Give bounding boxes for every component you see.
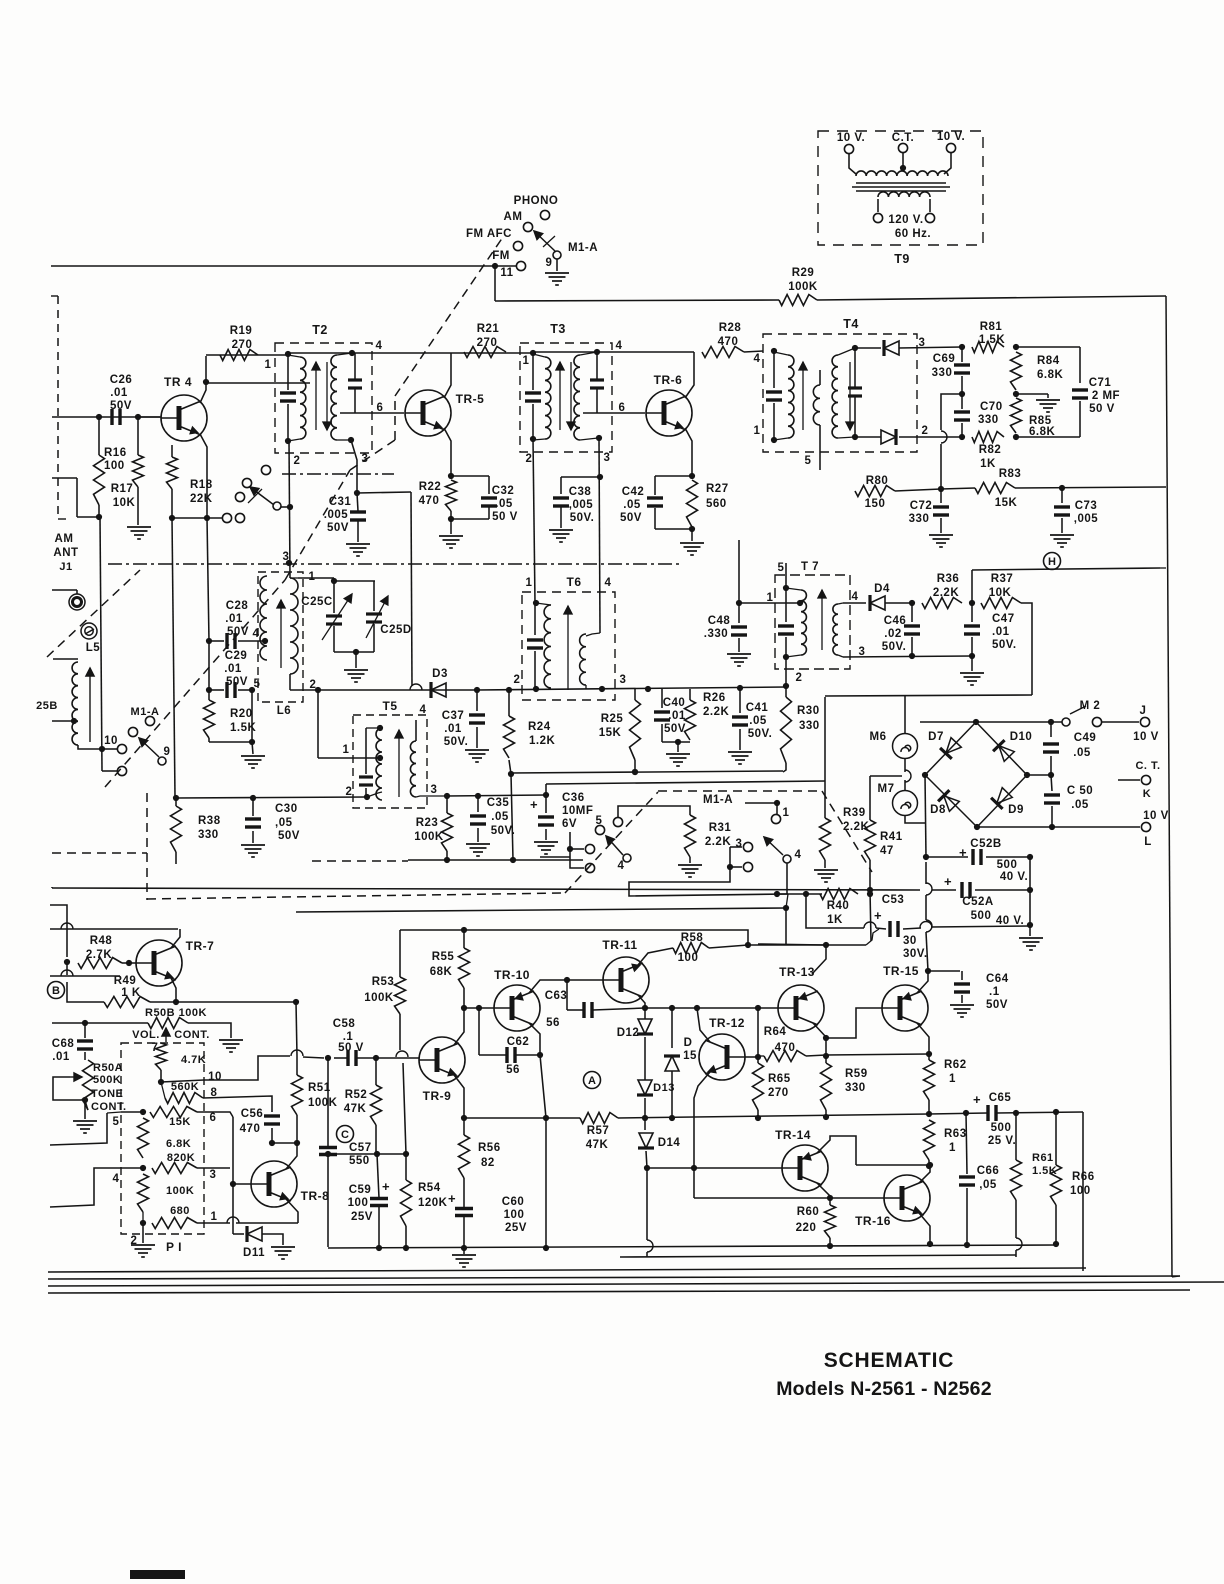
svg-text:C62: C62: [507, 1036, 530, 1048]
junction: [377, 755, 383, 761]
svg-text:5: 5: [113, 1116, 120, 1128]
svg-text:82: 82: [481, 1157, 495, 1169]
wire: [926, 932, 928, 971]
wire: [122, 962, 136, 964]
svg-text:R39: R39: [843, 807, 866, 819]
ground: [680, 543, 704, 555]
resistor R84: [1011, 352, 1022, 390]
svg-text:+: +: [448, 1191, 456, 1206]
terminal: [117, 744, 126, 753]
wire: [819, 370, 821, 385]
svg-text:M 2: M 2: [1080, 700, 1101, 712]
wire: [463, 1178, 465, 1208]
svg-text:2: 2: [922, 425, 929, 437]
wire TR-7 collector line: [50, 928, 178, 930]
svg-text:4: 4: [616, 340, 623, 352]
wire: [580, 438, 598, 440]
wire hop: [396, 1051, 408, 1057]
junction: [599, 686, 605, 692]
wire: [646, 1151, 647, 1168]
resistor R29: [779, 295, 817, 306]
dashed FM enclosure diagonal: [350, 440, 395, 470]
svg-text:2: 2: [526, 453, 533, 465]
wire: [355, 652, 357, 668]
svg-text:C. T.: C. T.: [1135, 760, 1160, 772]
junction: [823, 1053, 829, 1059]
wire: [408, 859, 583, 861]
svg-text:47K: 47K: [344, 1103, 367, 1115]
junction: [926, 1111, 932, 1117]
T2 arrow up: [312, 362, 320, 430]
wire: [634, 760, 636, 772]
wire: [236, 1222, 298, 1224]
svg-text:TONE: TONE: [91, 1088, 123, 1100]
svg-text:R63: R63: [944, 1128, 967, 1140]
svg-text:6: 6: [210, 1112, 217, 1124]
svg-text:10: 10: [208, 1071, 222, 1083]
transformer T3 dashed box: [520, 343, 612, 452]
svg-text:470: 470: [775, 1042, 796, 1054]
wire: [829, 1198, 831, 1205]
resistor R82: [972, 432, 1004, 443]
ground: [545, 273, 569, 285]
ground: [346, 544, 370, 556]
svg-text:50V.: 50V.: [992, 639, 1017, 651]
svg-text:100K: 100K: [166, 1185, 194, 1197]
wire: [85, 1100, 88, 1110]
svg-text:,05: ,05: [979, 1179, 997, 1191]
svg-text:.01: .01: [225, 613, 243, 625]
svg-text:3: 3: [859, 646, 866, 658]
transistor TR-10 emitter arrow: [514, 992, 524, 1001]
wire: [150, 1001, 296, 1003]
capacitor C38: [553, 498, 569, 506]
svg-text:25 V.: 25 V.: [988, 1135, 1016, 1147]
terminal: [1092, 717, 1101, 726]
wire L6 pin1: [298, 577, 334, 579]
junction: [510, 857, 516, 863]
wire: [739, 688, 741, 713]
wire: [476, 727, 478, 748]
wire: [773, 403, 775, 440]
svg-text:.05: .05: [491, 811, 509, 823]
capacitor C47: [964, 626, 980, 634]
junction: [461, 1005, 467, 1011]
wire: [773, 351, 775, 388]
svg-text:500K: 500K: [93, 1074, 121, 1086]
svg-text:22K: 22K: [190, 493, 213, 505]
wire TR-16 emitter: [919, 1213, 930, 1244]
svg-text:R19: R19: [230, 325, 253, 337]
junction: [642, 1115, 648, 1121]
resistor R62: [924, 1060, 935, 1100]
wire: [238, 640, 267, 642]
svg-text:50 V: 50 V: [338, 1042, 364, 1054]
junction: [204, 515, 210, 521]
wire T2 pin2 to L6: [289, 441, 290, 578]
svg-text:330: 330: [932, 367, 953, 379]
wire TR-13 base: [758, 1007, 778, 1009]
junction: [287, 504, 293, 510]
svg-text:CONT.: CONT.: [174, 1029, 210, 1041]
wire: [209, 741, 252, 743]
T7 arrow up: [818, 590, 826, 650]
wire right 10V bus: [1166, 296, 1172, 1277]
svg-text:1: 1: [754, 425, 761, 437]
junction: [974, 824, 980, 830]
wire input line: [50, 975, 120, 977]
wire T5 pin4 stub: [415, 720, 417, 741]
transistor TR-5 emitter arrow: [433, 421, 443, 430]
capacitor C73: [1054, 507, 1070, 515]
junction: [354, 490, 360, 496]
wire main B+ bus: [52, 888, 920, 890]
wire stub: [540, 856, 570, 858]
wire: [596, 388, 598, 413]
svg-text:AM: AM: [55, 533, 74, 545]
capacitor C60 electrolytic: [455, 1209, 473, 1216]
transistor TR-15: [882, 985, 928, 1031]
wire 10V L line: [977, 826, 1140, 828]
wire: [1061, 518, 1063, 533]
wire: [838, 348, 855, 355]
T5 arrow up: [395, 730, 403, 797]
svg-text:J: J: [1140, 705, 1147, 717]
wire: [819, 425, 821, 440]
junction: [644, 1165, 650, 1171]
resistor R66: [1051, 1165, 1062, 1205]
wire: [838, 603, 843, 604]
svg-text:TR-11: TR-11: [602, 938, 637, 952]
junction: [475, 793, 481, 799]
svg-text:1: 1: [265, 359, 272, 371]
wire: [655, 475, 692, 477]
svg-text:6.8K: 6.8K: [166, 1138, 191, 1150]
wire hop: [227, 1217, 239, 1223]
junction: [774, 891, 780, 897]
junction: [938, 486, 944, 492]
svg-text:B: B: [52, 985, 60, 997]
wire: [188, 1023, 231, 1038]
capacitor C66: [959, 1177, 975, 1185]
svg-text:H: H: [1048, 556, 1056, 568]
ground: [127, 527, 151, 539]
terminal: [513, 241, 522, 250]
diode detector bottom: [881, 429, 896, 445]
svg-text:R40: R40: [827, 900, 850, 912]
junction: [325, 1055, 331, 1061]
junction: [564, 977, 570, 983]
junction: [827, 1195, 833, 1201]
svg-text:Models N-2561 - N2562: Models N-2561 - N2562: [776, 1378, 992, 1400]
transformer T5 primary coil: [376, 728, 382, 800]
resistor R60: [825, 1205, 836, 1238]
wire: [463, 1250, 465, 1254]
wire: [334, 1057, 347, 1059]
junction: [508, 771, 514, 777]
wire: [208, 738, 210, 742]
resistor R30: [781, 697, 792, 763]
svg-text:+: +: [530, 797, 538, 812]
svg-text:100K: 100K: [364, 992, 394, 1004]
ground: [960, 673, 984, 685]
junction: [923, 854, 929, 860]
svg-text:D9: D9: [1008, 804, 1024, 816]
svg-text:56: 56: [506, 1064, 520, 1076]
junction: [669, 1005, 675, 1011]
wire: [961, 995, 963, 1003]
svg-text:M1-A: M1-A: [703, 794, 733, 806]
wire long interconnect: [296, 908, 786, 912]
wire hop: [647, 1240, 653, 1252]
svg-text:100K: 100K: [788, 281, 818, 293]
wire R30 bottom: [783, 763, 786, 772]
wire R19 rail: [206, 354, 288, 356]
wire: [53, 658, 78, 660]
wire: [785, 686, 787, 697]
junction: [694, 1005, 700, 1011]
transformer T6 primary coil: [544, 605, 551, 688]
wire T3 pin3 down: [599, 438, 600, 633]
svg-text:TR-5: TR-5: [456, 392, 485, 406]
svg-text:TR-6: TR-6: [654, 373, 683, 387]
transistor TR-10: [494, 985, 540, 1031]
transformer T6 dashed box: [522, 592, 615, 700]
resistor 680: [152, 1218, 197, 1229]
junction: [771, 437, 777, 443]
wire: [570, 848, 584, 850]
terminal: [844, 144, 853, 153]
svg-text:C42: C42: [622, 486, 645, 498]
wire: [911, 603, 913, 622]
transformer T3 secondary coil: [574, 355, 580, 440]
transformer T9 secondary coil: [878, 192, 930, 197]
inductor L6 coil B: [290, 578, 298, 674]
svg-text:C73: C73: [1075, 500, 1098, 512]
wire: [137, 417, 139, 455]
svg-text:50V: 50V: [110, 400, 132, 412]
junction: [448, 473, 454, 479]
svg-text:10K: 10K: [989, 587, 1012, 599]
diode D3: [431, 682, 446, 698]
switch M1-A arm: [534, 231, 556, 252]
wire: [691, 529, 693, 541]
transistor TR-9 emitter arrow: [447, 1068, 457, 1077]
ground: [534, 842, 558, 854]
wire hop: [410, 684, 422, 690]
capacitor C72: [933, 507, 949, 515]
svg-text:TR-13: TR-13: [779, 965, 815, 979]
T4 arrow up: [799, 362, 807, 430]
capacitor C25D variable: [366, 614, 382, 622]
wire: [357, 493, 358, 511]
wire: [51, 887, 53, 888]
junction: [755, 1054, 761, 1060]
svg-text:R53: R53: [372, 976, 395, 988]
wire T9 left lead: [849, 154, 856, 174]
wire: [940, 518, 942, 533]
transistor TR-15 emitter arrow: [902, 992, 912, 1001]
ground: [344, 670, 368, 682]
svg-text:C: C: [341, 1129, 349, 1141]
svg-text:470: 470: [718, 336, 739, 348]
switch M1-A cross mark: [543, 236, 555, 247]
dashed FM enclosure diagonal: [395, 234, 505, 396]
svg-text:100K: 100K: [414, 831, 444, 843]
transformer T2 dashed box: [275, 343, 372, 453]
svg-text:T4: T4: [843, 317, 859, 331]
resistor R53: [395, 977, 406, 1014]
junction: [1048, 772, 1054, 778]
capacitor C57 electrolytic: [319, 1148, 337, 1155]
wire: [1061, 488, 1063, 503]
wire coil bottom link: [288, 439, 300, 441]
wire IF rail 2: [533, 351, 694, 353]
wire: [928, 1100, 930, 1114]
wire hop: [920, 922, 932, 928]
svg-text:9: 9: [164, 746, 171, 758]
wire TR-10 collector: [529, 980, 563, 993]
wire: [824, 697, 826, 781]
resistor R52: [371, 1085, 382, 1125]
svg-text:C30: C30: [275, 803, 298, 815]
wire H net: [972, 568, 1160, 570]
svg-text:4: 4: [618, 860, 625, 872]
L6 arrow up: [277, 600, 285, 668]
wire: [172, 517, 222, 519]
svg-text:C37: C37: [442, 710, 465, 722]
wire: [66, 963, 68, 975]
transistor TR-11 emitter arrow: [631, 964, 641, 973]
wire: [161, 1080, 204, 1082]
wire: [1079, 401, 1081, 437]
terminal: [235, 492, 244, 501]
svg-text:R36: R36: [937, 573, 960, 585]
capacitor C25C arrow: [322, 594, 352, 640]
svg-text:680: 680: [170, 1205, 190, 1217]
wire switch to ground: [556, 259, 558, 271]
wire TR-5 collector: [444, 353, 451, 398]
terminal: [585, 863, 594, 872]
capacitor T2 secondary: [348, 380, 362, 388]
wire TR-14 collector path: [817, 1136, 856, 1165]
svg-text:330: 330: [799, 720, 820, 732]
svg-text:50V: 50V: [620, 512, 642, 524]
junction: [1027, 922, 1033, 928]
wire: [76, 478, 78, 517]
node C: [337, 1126, 354, 1143]
wire: [671, 1071, 673, 1118]
wire TR-9 collector: [454, 1008, 464, 1045]
svg-text:C41: C41: [746, 702, 769, 714]
capacitor T6 tuning: [527, 640, 543, 648]
svg-text:50 V: 50 V: [492, 511, 518, 523]
svg-text:C 50: C 50: [1067, 785, 1093, 797]
wire: [691, 527, 693, 529]
svg-text:R41: R41: [880, 831, 903, 843]
wire FM det line: [318, 689, 477, 691]
wire: [593, 1008, 645, 1010]
wire: [855, 436, 881, 438]
transistor TR-4: [161, 395, 207, 441]
junction: [969, 600, 975, 606]
wire: [689, 689, 691, 700]
wire: [67, 982, 104, 1002]
svg-text:D3: D3: [432, 668, 448, 680]
svg-text:,05: ,05: [275, 817, 293, 829]
wire T9 CT lead: [902, 153, 904, 167]
wire AVC to bus: [1015, 487, 1166, 488]
resistor R22: [446, 480, 457, 511]
junction: [206, 638, 212, 644]
wire: [233, 1233, 244, 1235]
svg-text:D: D: [684, 1037, 693, 1049]
diode D14: [638, 1133, 654, 1148]
wire: [373, 581, 375, 611]
wire: [317, 690, 319, 758]
svg-text:R38: R38: [198, 815, 221, 827]
junction: [689, 473, 695, 479]
resistor R57: [580, 1113, 618, 1124]
wire AGC tap: [941, 394, 962, 430]
svg-text:470: 470: [419, 495, 440, 507]
ground: [465, 750, 489, 762]
capacitor C32: [481, 498, 497, 506]
resistor R24: [504, 716, 515, 758]
junction: [444, 793, 450, 799]
wire: [786, 588, 801, 590]
wire AM input: [52, 416, 160, 418]
svg-text:4: 4: [754, 353, 761, 365]
terminal: [946, 143, 955, 152]
wire: [911, 637, 913, 656]
wire ground bus: [328, 1245, 1056, 1248]
junction: [927, 1162, 933, 1168]
resistor R19: [220, 350, 258, 361]
svg-text:3: 3: [604, 452, 611, 464]
resistor R18: [167, 457, 178, 489]
junction: [250, 795, 256, 801]
wire M6 top: [904, 696, 906, 733]
terminal: [1062, 718, 1070, 726]
resistor R83: [975, 483, 1015, 494]
svg-text:1 K: 1 K: [121, 987, 141, 999]
resistor R36: [922, 598, 962, 609]
wire: [1016, 393, 1048, 395]
svg-text:R55: R55: [432, 951, 455, 963]
wire: [171, 445, 173, 457]
wire: [866, 929, 879, 945]
svg-text:4: 4: [852, 591, 859, 603]
svg-text:50V: 50V: [664, 723, 686, 735]
svg-text:K: K: [1143, 788, 1151, 800]
wire: [748, 944, 866, 946]
capacitor T3 primary: [525, 393, 541, 401]
svg-text:5: 5: [805, 455, 812, 467]
svg-text:R61: R61: [1032, 1152, 1054, 1164]
wire: [585, 685, 587, 689]
svg-text:560: 560: [706, 498, 727, 510]
wire: [171, 489, 173, 518]
junction: [294, 1140, 300, 1146]
terminal: [1140, 717, 1149, 726]
junction: [926, 1051, 932, 1057]
wire output to speaker line: [1082, 1112, 1084, 1271]
wire: [986, 856, 1030, 858]
junction: [96, 414, 102, 420]
svg-text:R50B 100K: R50B 100K: [145, 1007, 207, 1019]
capacitor T7 tuning: [778, 626, 794, 634]
